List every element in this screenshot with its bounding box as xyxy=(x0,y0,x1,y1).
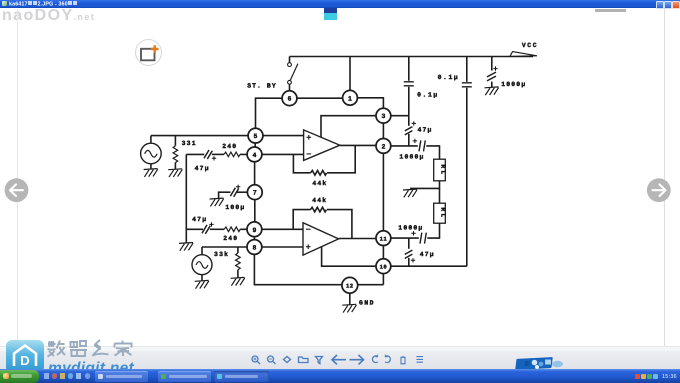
svg-text:5: 5 xyxy=(254,133,258,140)
task button 2 xyxy=(158,371,211,382)
svg-text:RL: RL xyxy=(440,165,447,177)
pin 7 xyxy=(247,185,262,200)
svg-text:44k: 44k xyxy=(312,180,327,187)
svg-text:8: 8 xyxy=(252,245,256,252)
svg-text:RL: RL xyxy=(440,208,447,220)
svg-text:6: 6 xyxy=(288,96,292,103)
resistor 240 ch2 xyxy=(224,227,240,232)
pin 10 xyxy=(376,259,391,274)
wire cap to pin11 xyxy=(391,237,419,239)
capacitor 1000u out ch1 xyxy=(413,139,426,152)
capacitor 47u bootstrap ch1 xyxy=(405,121,416,135)
wire pin6 to pin1 xyxy=(297,97,343,99)
load RL2 xyxy=(434,203,447,223)
pin 6 xyxy=(282,91,297,106)
capacitor 100u xyxy=(230,185,240,197)
svg-text:100µ: 100µ xyxy=(225,204,245,211)
pin 9 xyxy=(247,222,262,237)
wire 0.1u line upper xyxy=(408,57,410,81)
wire 44k down to output xyxy=(327,210,352,239)
wire pin1 right down to pin3 xyxy=(357,98,383,109)
capacitor 1000u rail xyxy=(487,66,498,81)
title bar xyxy=(0,0,680,8)
svg-text:D: D xyxy=(20,353,29,368)
ground under pin12 xyxy=(342,304,356,312)
wire 1000u rail to ground xyxy=(491,82,493,88)
toolbar icons xyxy=(245,351,435,368)
resistor 44k ch1 xyxy=(311,171,327,176)
naoDOY.net watermark xyxy=(2,7,95,25)
ground RL xyxy=(403,189,417,197)
wire pin10 bottom xyxy=(382,274,384,285)
svg-text:7: 7 xyxy=(253,190,257,197)
signal source G1 xyxy=(141,143,162,164)
resistor 44k ch2 xyxy=(310,207,326,212)
wire 240 to pin4 and opamp minus xyxy=(240,153,304,155)
taskbar xyxy=(0,369,680,383)
pin 3 xyxy=(376,108,391,123)
ground under AC1 xyxy=(144,169,158,177)
wire 0.1u second line lower xyxy=(466,88,468,266)
wire pin11 to 47u ch2 xyxy=(408,238,410,249)
wire AC1 top stem xyxy=(150,136,152,144)
ground under AC2 xyxy=(195,280,209,288)
svg-text:47µ: 47µ xyxy=(195,165,210,172)
wire 331 to ground xyxy=(174,163,176,170)
wire pin3 to U1a top xyxy=(321,116,376,138)
op-amp U1a xyxy=(304,130,340,161)
capacitor 0.1u first xyxy=(404,82,414,86)
resistor 33k xyxy=(236,253,241,270)
wire pin6 left down to pin5 xyxy=(256,98,283,128)
wire 44k up to output xyxy=(327,145,355,173)
pin 11 xyxy=(376,231,391,246)
bottom-left mydigit logo xyxy=(6,340,44,373)
ground input bus xyxy=(179,243,193,251)
task button 1 xyxy=(95,371,148,382)
svg-text:1000µ: 1000µ xyxy=(398,224,423,231)
ground under 331 xyxy=(168,169,182,177)
svg-text:47µ: 47µ xyxy=(420,251,435,258)
wire pin5 to pin4 xyxy=(254,143,256,147)
wire U1a output to pin2 xyxy=(340,144,376,146)
svg-text:331: 331 xyxy=(182,140,197,147)
left faint border line of image area xyxy=(17,9,18,345)
wire pin3 to pin2 xyxy=(382,123,384,139)
pin 2 xyxy=(376,139,391,154)
wire pin2 row right xyxy=(391,145,418,147)
start button xyxy=(0,370,39,383)
wire 240 to pin9 and opamp2 minus xyxy=(240,228,303,230)
wire 100u to ground step xyxy=(219,192,231,198)
wire switch to pin6 xyxy=(289,84,291,91)
pin 1 xyxy=(343,90,358,105)
feedback loop U1a xyxy=(293,154,310,172)
wire resistor 331 stem xyxy=(174,136,176,146)
wire pin2 to pin11 xyxy=(382,153,384,231)
wire input bus vertical xyxy=(185,154,187,243)
svg-text:10: 10 xyxy=(380,263,388,270)
wire pin12 stem xyxy=(349,293,351,305)
blue badge watermark right of toolbar xyxy=(515,357,553,369)
toolbar strip xyxy=(0,346,680,347)
system tray icons xyxy=(635,374,640,379)
wire pin7 to pin9 xyxy=(254,199,256,222)
wire pin4 row left segment xyxy=(186,153,204,155)
signal source G2 xyxy=(192,255,212,275)
wire pin7 row xyxy=(237,191,248,193)
wire pin4 to pin7 xyxy=(254,162,256,185)
wire RL2 bottom to cap xyxy=(427,223,439,238)
ground 33k xyxy=(231,277,245,285)
switch S1 xyxy=(288,63,298,85)
wire 0.1u second line upper xyxy=(466,57,468,82)
right nav arrow xyxy=(645,177,673,205)
ground 100u xyxy=(210,198,224,206)
floating teal mini-window near title bar xyxy=(324,8,338,20)
wire pin11 to pin10 xyxy=(382,246,384,259)
wire cap to resistor240 xyxy=(212,153,224,155)
wire U1b output to pin11 xyxy=(339,238,376,240)
capacitor 0.1u second xyxy=(462,83,472,87)
right faint border line xyxy=(664,8,665,346)
mydigit.net xyxy=(48,360,134,378)
svg-text:47µ: 47µ xyxy=(192,216,207,223)
capacitor 47u input ch2 xyxy=(202,222,214,234)
wire U1b bottom to pin10 xyxy=(322,247,376,266)
wire cap to RL1 xyxy=(426,146,439,159)
wire 33k stem xyxy=(237,247,239,253)
overlay round button with square+plus icon xyxy=(135,39,162,66)
feedback loop U1b xyxy=(293,210,310,230)
svg-text:1: 1 xyxy=(348,95,352,102)
svg-text:1000µ: 1000µ xyxy=(399,154,424,161)
svg-text:4: 4 xyxy=(253,152,257,159)
wire pin3 row right xyxy=(391,115,409,117)
op-amp U1b xyxy=(303,223,339,255)
pin 12 xyxy=(342,277,358,293)
capacitor 1000u out ch2 xyxy=(411,231,426,244)
svg-text:ST. BY: ST. BY xyxy=(247,83,277,90)
wire 33k to ground xyxy=(237,270,239,278)
wire AC1 bottom stem xyxy=(150,164,152,169)
wire ch2 input from bus xyxy=(186,228,203,230)
pin 5 xyxy=(248,128,263,143)
wire 1000u rail stem xyxy=(491,57,493,71)
wire pin9 to pin8 xyxy=(253,237,255,240)
svg-text:12: 12 xyxy=(346,283,354,290)
pin 4 xyxy=(247,147,262,162)
svg-text:3: 3 xyxy=(381,113,385,120)
ground 1000u rail xyxy=(485,87,499,95)
wire pin8 bottom to pin12 to pin10 xyxy=(254,254,383,284)
resistor 240 ch1 xyxy=(224,152,240,157)
wire 47u ch2 to pin10 row xyxy=(408,258,410,266)
wire 47u to pin2 row xyxy=(408,134,410,146)
wire pin3 junction to 47u xyxy=(408,116,410,126)
svg-text:0.1µ: 0.1µ xyxy=(438,74,460,81)
svg-text:11: 11 xyxy=(380,235,388,242)
pin 8 xyxy=(247,240,262,255)
wire AC1 to pin5 row xyxy=(151,135,304,137)
svg-text:240: 240 xyxy=(222,143,237,150)
load RL1 xyxy=(434,159,447,181)
wire VCC rail xyxy=(290,56,534,58)
svg-text:GND: GND xyxy=(359,300,375,307)
gray mini bar under title xyxy=(595,9,626,12)
clock xyxy=(662,374,677,380)
wire pin1 stem xyxy=(349,57,351,91)
VCC arrow xyxy=(510,52,537,57)
capacitor 47u bootstrap ch2 xyxy=(405,250,415,262)
svg-text:240: 240 xyxy=(223,235,238,242)
wire switch stem top xyxy=(289,57,291,63)
svg-text:VCC: VCC xyxy=(522,42,538,49)
svg-text:33k: 33k xyxy=(214,251,229,258)
left nav arrow xyxy=(3,177,31,205)
wire AC2 bottom stem xyxy=(201,275,203,281)
capacitor 47u input ch1 xyxy=(204,150,216,161)
mydigit logo text glyphs (hand drawn) xyxy=(46,338,136,358)
svg-text:47µ: 47µ xyxy=(417,127,432,134)
task button 3 (active) xyxy=(214,371,269,382)
svg-text:44k: 44k xyxy=(312,197,327,204)
wire RL1 bottom to ground xyxy=(410,181,440,189)
svg-text:1000µ: 1000µ xyxy=(501,81,526,88)
wire pin10 row right xyxy=(391,265,467,267)
quick launch icons xyxy=(44,373,49,379)
svg-text:0.1µ: 0.1µ xyxy=(417,92,439,99)
wire RL1 to RL2 xyxy=(439,188,441,203)
svg-text:9: 9 xyxy=(252,227,256,234)
wire 0.1u line lower xyxy=(408,87,410,116)
window buttons xyxy=(656,1,664,9)
resistor 331 xyxy=(173,146,178,163)
wire AC2 top stem xyxy=(201,247,203,255)
svg-text:2: 2 xyxy=(381,143,385,150)
wire pin8 row xyxy=(202,246,303,248)
wire cap to 240 ch2 xyxy=(210,228,224,230)
